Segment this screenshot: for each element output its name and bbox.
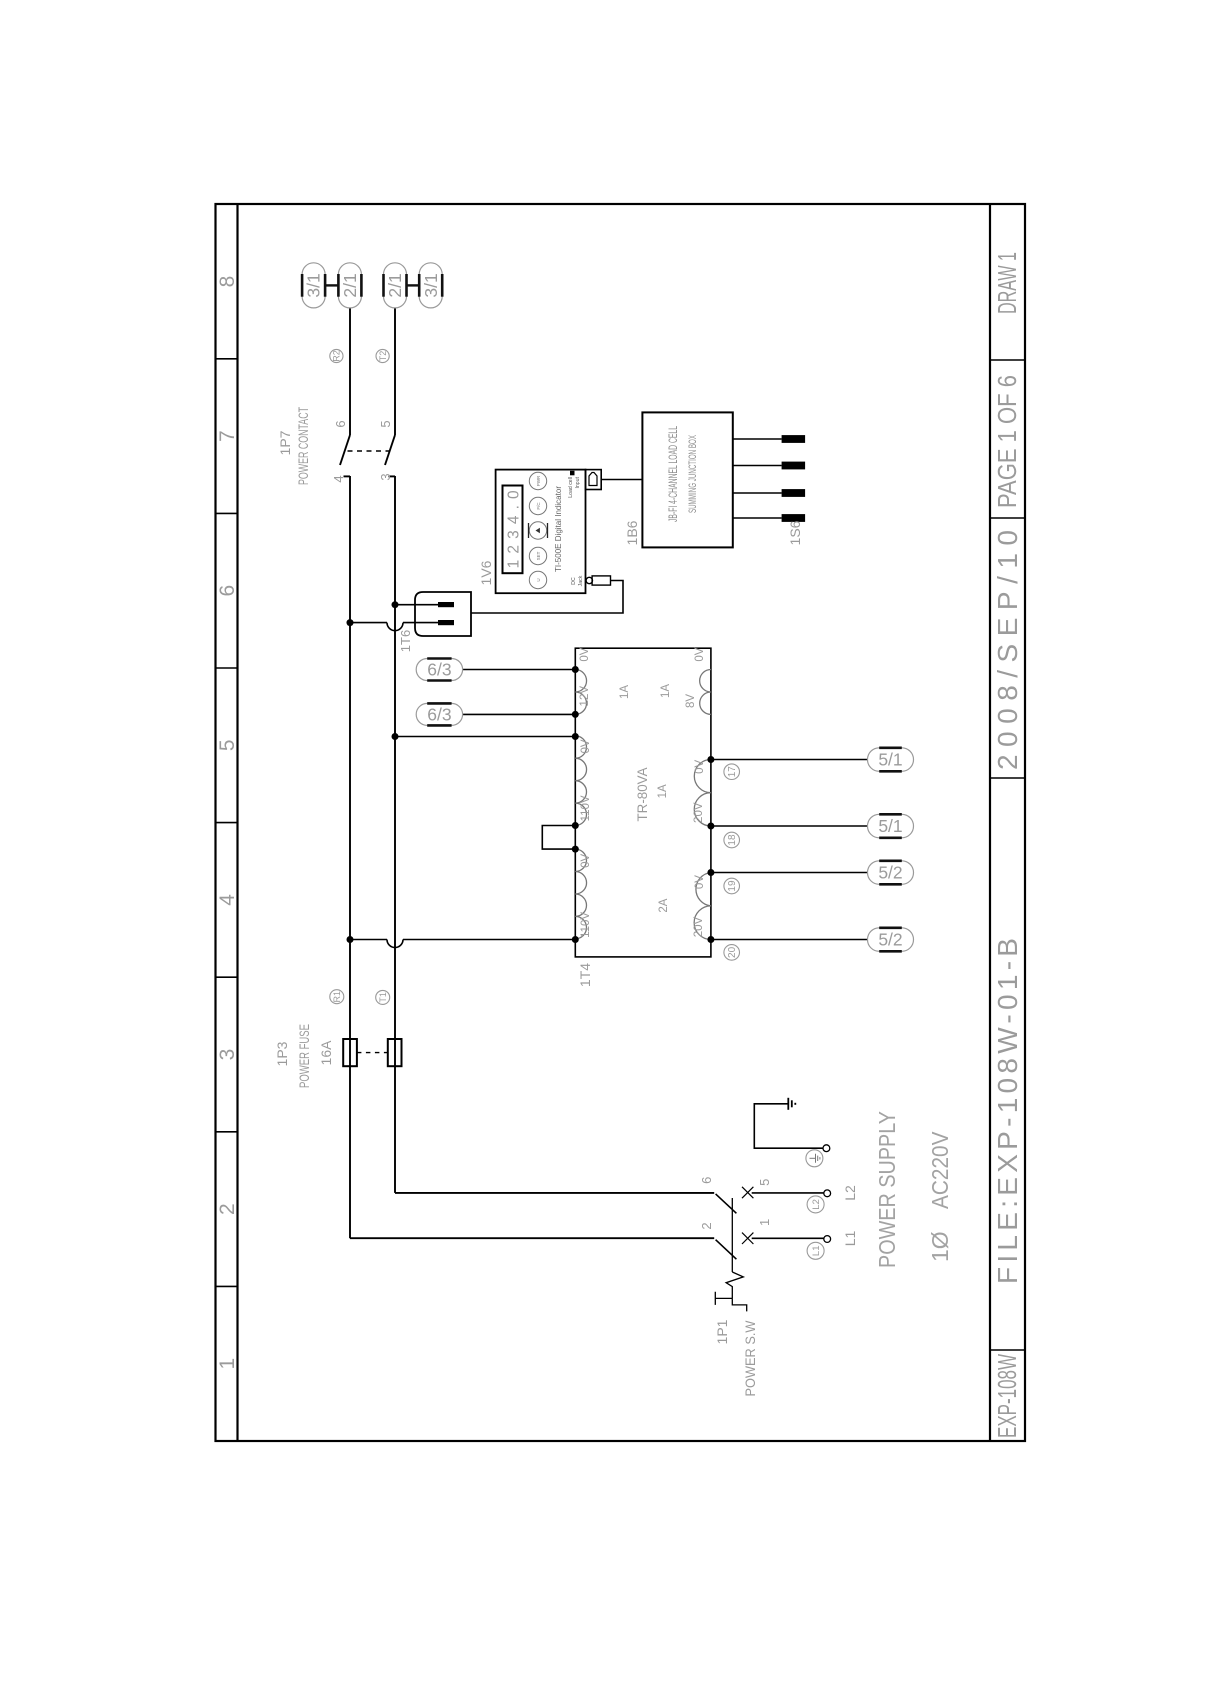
svg-text:L1: L1 [811,1246,822,1257]
primary series jumper [542,826,575,850]
svg-text:2A: 2A [658,898,670,912]
svg-text:L2: L2 [811,1199,822,1210]
svg-text:3: 3 [378,473,393,480]
junction on wire T to transformer primary 0V [392,733,399,740]
terminal tag 20 [724,945,740,961]
wire 1V6 load cell connector to 1B6 [601,479,642,481]
load cell lead 4 [733,435,805,443]
load cell lead 2 [733,489,805,497]
svg-text:L2: L2 [842,1185,858,1201]
page flag 3/1 (wire R) [302,263,325,308]
junction on wire R to outlet 1T6 [347,619,354,626]
svg-text:17: 17 [727,766,738,778]
svg-text:5: 5 [216,739,239,751]
node tag R2 [330,349,343,362]
wire terminal 20 to flag 5/2 [711,939,868,941]
terminal stud L2 [824,1190,831,1197]
winding voltage labels [579,647,706,938]
svg-text:1A: 1A [619,685,631,699]
power contact 1P7 pole T blade [385,435,395,465]
wire from T junction to outlet prong [395,604,438,606]
secondary winding 20V 2A [694,873,711,940]
1P1 pole R contact cross [742,1233,753,1244]
svg-text:PWR: PWR [536,475,541,486]
1V6 button 1 [529,571,546,588]
svg-text:AC220V: AC220V [927,1131,953,1209]
svg-text:POWER SUPPLY: POWER SUPPLY [874,1111,900,1268]
terminal dot primary 110V B [572,936,579,943]
wire outlet 1T6 to DC jack of 1V6 [471,581,623,614]
svg-text:R2: R2 [332,350,342,362]
terminal dot primary 0V (110V A) [572,733,579,740]
junction on wire T to outlet 1T6 [392,601,399,608]
protective earth wire [754,1104,823,1148]
terminal dot primary 0V (12V winding) [572,666,579,673]
1P1 spring [726,1272,743,1298]
power fuse 1P3 pole R [343,1039,357,1066]
svg-text:20V: 20V [693,802,705,823]
svg-text:5: 5 [378,420,393,427]
svg-text:0V: 0V [580,739,592,753]
terminal dot primary 110V A [572,822,579,829]
svg-text:1A: 1A [657,784,669,798]
svg-text:POWER CONTACT: POWER CONTACT [295,407,311,485]
svg-text:JB-FI 4-CHANNEL LOAD CELL: JB-FI 4-CHANNEL LOAD CELL [666,426,680,522]
page flag 5/2 (terminal 20) [868,928,914,952]
wire terminal 17 to flag 5/1 [711,759,868,761]
page flag 5/1 (terminal 17) [868,748,914,772]
svg-text:8V: 8V [685,694,697,708]
svg-text:1V6: 1V6 [478,560,494,585]
secondary winding 8V [700,670,711,715]
1V6 button 4 [529,497,546,514]
svg-text:1B6: 1B6 [624,520,640,545]
svg-text:F/C: F/C [536,502,541,510]
terminal dot primary 0V (110V B) [572,846,579,853]
svg-text:1T6: 1T6 [398,630,413,652]
wire 1P1 pin 5 to terminal L2 [752,1192,824,1194]
svg-text:1A: 1A [660,684,672,698]
contact 1P7 mechanical link [348,450,390,452]
svg-text:Jack: Jack [578,575,584,586]
svg-text:5/1: 5/1 [878,750,902,770]
svg-text:L1: L1 [842,1231,858,1247]
svg-text:2: 2 [216,1203,239,1215]
page flag 2/1 (wire T) [384,263,407,308]
svg-text:19: 19 [727,880,738,892]
node tag R1 [330,990,344,1004]
1P1 pole T contact cross [742,1187,753,1198]
load cell lead 1 [733,514,805,522]
node tag T1 [376,990,390,1004]
power switch 1P1 pole T blade [716,1194,737,1213]
load cell input icon [570,471,575,476]
terminal dot secondary 18 [707,823,714,830]
svg-text:U: U [536,578,541,581]
load cell lead 3 [733,462,805,470]
earth terminal stud [823,1145,830,1152]
svg-text:3/1: 3/1 [421,273,441,297]
terminal tag 19 [724,878,740,894]
svg-text:6/3: 6/3 [427,660,451,680]
svg-text:16A: 16A [318,1040,334,1066]
frame zone numbers 1-8 [216,276,239,1370]
1P1 operating handle [715,1292,746,1312]
secondary winding 20V 1A [694,760,711,827]
node tag L1 [807,1242,824,1259]
wire flag 6/3 to primary 12V [463,713,576,715]
svg-text:TI-500E Digital Indicator: TI-500E Digital Indicator [553,486,563,572]
wire R branch to primary 110V with hop over wire T [350,940,575,948]
drawing border frame [216,204,1026,1441]
wire flag 6/3 to primary 0V (12V winding) [463,669,576,671]
svg-text:0V: 0V [694,647,706,661]
terminal dot secondary 17 [707,756,714,763]
fuse 1P3 mechanical link [357,1052,388,1054]
wire terminal 18 to flag 5/1 [711,825,868,827]
ground symbol [788,1098,795,1110]
summing junction box 1B6 [642,412,732,547]
winding current ratings [619,684,672,913]
terminal tag 17 [724,764,740,780]
terminal dot primary 12V [572,711,579,718]
page flag 5/2 (terminal 19) [868,861,914,885]
power switch 1P1 pole R blade [716,1240,737,1260]
svg-text:T2: T2 [378,351,388,362]
terminal tag 18 [724,832,740,848]
svg-text:1P3: 1P3 [274,1041,290,1066]
svg-text:DRAW 1: DRAW 1 [992,252,1022,314]
page flag 6/3 (0V) [416,659,462,681]
svg-text:4: 4 [331,475,346,482]
wire T: from flag 2/1 through contact 1P7, fuse, down to switch pin 6 [389,308,715,1193]
svg-text:1P7: 1P7 [277,430,293,455]
frame zone ticks and title cell dividers [216,359,1026,1350]
transformer 1T4 body [575,648,711,957]
terminal dot secondary 20 [707,936,714,943]
outlet 1T6 prong (T) [438,602,454,607]
1V6 button 3 tare [529,522,548,539]
svg-text:6: 6 [699,1177,714,1184]
load cell connector of 1V6 [586,470,602,490]
svg-text:POWER FUSE: POWER FUSE [296,1024,312,1088]
wire from R junction to outlet prong with hop over wire T [350,623,438,631]
terminal dot secondary 19 [707,869,714,876]
svg-text:5/2: 5/2 [878,930,902,950]
page flag 3/1 (wire T) [419,263,442,308]
svg-text:POWER S.W: POWER S.W [742,1320,758,1397]
svg-text:Input: Input [575,476,581,488]
svg-text:R1: R1 [332,991,342,1003]
terminal stud L1 [824,1236,831,1243]
power contact 1P7 pole R blade [340,435,350,465]
svg-text:SET: SET [536,551,541,560]
svg-text:Load cell: Load cell [568,477,574,498]
svg-text:TR-80VA: TR-80VA [634,767,650,822]
svg-text:5/1: 5/1 [878,816,902,836]
page flag 5/1 (terminal 18) [868,814,914,838]
primary winding 110V A [575,736,586,826]
svg-text:1P1: 1P1 [714,1319,730,1344]
label DC Jack [571,575,584,586]
svg-text:6: 6 [216,585,239,597]
page flag 6/3 (12V) [416,703,462,725]
outlet 1T6 prong (R) [438,620,454,625]
svg-text:0V: 0V [579,647,591,661]
1V6 display window 1234.0 [503,486,523,574]
svg-text:20: 20 [727,946,738,958]
svg-text:110V: 110V [580,795,592,821]
svg-text:SUMMING JUNCTION BOX: SUMMING JUNCTION BOX [687,435,699,513]
svg-text:2/1: 2/1 [385,273,405,297]
svg-text:18: 18 [727,834,738,846]
node tag earth [806,1150,823,1167]
1V6 button 2 [529,547,546,564]
digital indicator 1V6 body [496,470,586,594]
node tag T2 [376,349,389,362]
label Load cell Input [568,476,581,497]
svg-text:6: 6 [333,420,348,427]
svg-text:1Ø: 1Ø [927,1231,953,1262]
svg-text:1T4: 1T4 [577,963,593,987]
svg-text:110V: 110V [580,912,592,938]
svg-text:0V: 0V [580,853,592,867]
svg-text:4: 4 [216,894,239,906]
flag link 2/1 to 3/1 [407,284,420,286]
wire terminal 19 to flag 5/2 [711,872,868,874]
1P1 mechanical link bar [731,1198,733,1272]
node tag L2 [807,1196,824,1213]
primary winding 110V B [575,849,586,939]
DC jack of 1V6 [586,576,610,585]
page flag 2/1 (wire R) [338,263,361,308]
1V6 button 5 [529,472,546,489]
primary winding 12V [575,670,586,715]
svg-text:1: 1 [757,1219,772,1226]
svg-text:2008/SEP/10: 2008/SEP/10 [992,530,1023,770]
svg-text:2/1: 2/1 [340,273,360,297]
power fuse 1P3 pole T [388,1039,402,1066]
svg-text:EXP-108W: EXP-108W [992,1354,1022,1438]
svg-text:2: 2 [699,1222,714,1229]
svg-text:12V: 12V [579,686,591,707]
svg-text:0V: 0V [694,875,706,889]
svg-text:PAGE 1 OF 6: PAGE 1 OF 6 [992,375,1022,508]
svg-text:6/3: 6/3 [427,704,451,724]
flag link 3/1 to 2/1 [325,284,338,286]
svg-text:0V: 0V [694,759,706,773]
wire 1P1 pin 1 to terminal L1 [752,1237,824,1239]
svg-text:20V: 20V [693,916,705,937]
svg-text:1: 1 [216,1358,239,1370]
svg-text:8: 8 [216,276,239,288]
svg-text:T1: T1 [378,992,388,1003]
svg-text:5/2: 5/2 [878,863,902,883]
svg-text:1S6: 1S6 [787,520,803,545]
svg-text:3/1: 3/1 [304,273,324,297]
junction on wire R to transformer primary 110V [347,936,354,943]
outlet 1T6 body [415,592,471,636]
svg-text:DC: DC [571,577,577,585]
wire T branch to primary 0V [395,736,575,738]
wire R: from flag 2/1 through contact 1P7, fuse, down to switch pin 2 [344,308,715,1238]
svg-text:7: 7 [216,430,239,442]
svg-text:3: 3 [216,1049,239,1061]
svg-text:5: 5 [757,1179,772,1186]
